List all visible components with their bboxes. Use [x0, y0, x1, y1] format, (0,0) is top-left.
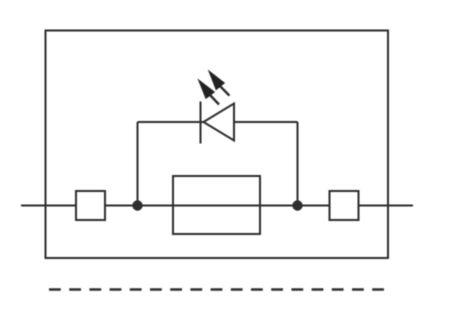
dashed mounting-rail line — [49, 288, 386, 290]
LED D1 (diode triangle and cathode bar) — [201, 102, 235, 144]
node A (left junction dot) — [132, 200, 142, 210]
wire: right lead out of enclosure — [359, 205, 414, 207]
LED emission arrow 2 (upper-right) — [209, 72, 229, 96]
wire: LED branch left riser — [137, 122, 139, 206]
node B (right junction dot) — [292, 200, 302, 210]
LED emission arrow 1 (lower-left) — [199, 81, 219, 105]
terminal block enclosure outline — [46, 31, 389, 259]
wire: left clamp to node A — [105, 205, 137, 207]
wire: left lead into enclosure — [21, 205, 76, 207]
wire: node A to fuse — [138, 205, 174, 207]
clamp contact (left terminal square) — [76, 191, 105, 220]
wire: LED branch top-left segment — [138, 121, 205, 123]
wire: LED branch right riser — [297, 122, 299, 206]
wire: node B to right clamp — [298, 205, 330, 207]
fuse F1 (rectangle with through-conductor) — [173, 176, 260, 234]
wire: LED branch top-right segment — [234, 121, 298, 123]
clamp contact (right terminal square) — [330, 191, 359, 220]
wire: fuse to node B — [260, 205, 298, 207]
